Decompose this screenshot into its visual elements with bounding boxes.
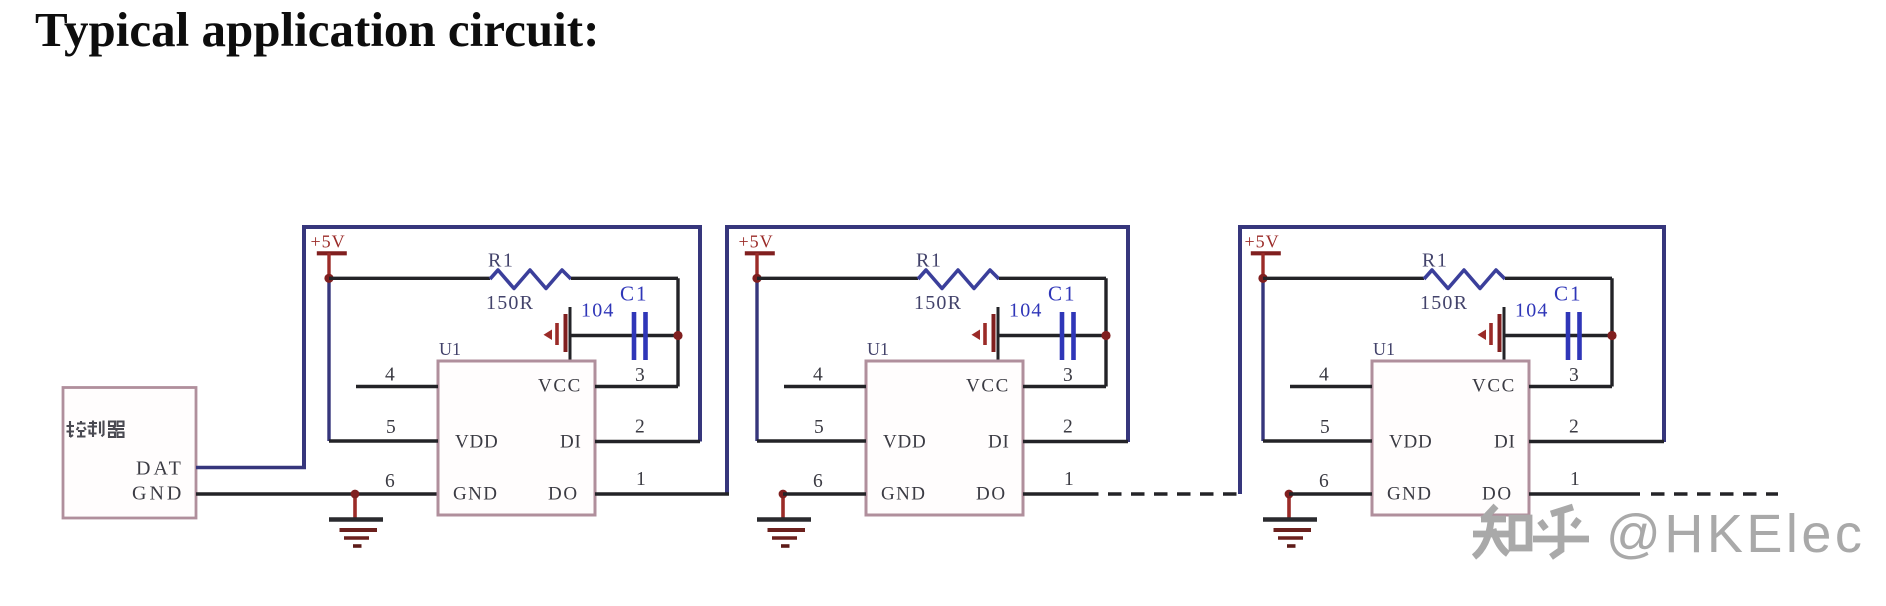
junction dot at capacitor/VCC node (stage 2) (1101, 331, 1110, 340)
svg-text:VCC: VCC (1472, 376, 1516, 397)
svg-text:U1: U1 (867, 339, 889, 359)
capacitor C1 plates (stage 2) (1062, 312, 1074, 360)
svg-text:VDD: VDD (455, 432, 499, 453)
wire: resistor to top-right corner (stage 3) (1505, 277, 1612, 280)
capacitor C1 plates (stage 1) (634, 312, 646, 360)
svg-text:GND: GND (453, 484, 498, 505)
svg-text:R1: R1 (916, 250, 942, 272)
capacitor C1 plates (stage 3) (1568, 312, 1580, 360)
watermark 知乎 (drawn strokes) (1473, 506, 1589, 557)
wire: resistor to top-right corner (stage 1) (571, 277, 678, 280)
dashed wire DO stage 2 to stage 3 loop (1085, 492, 1242, 496)
power symbol +5V (stage 1) (311, 232, 347, 279)
svg-text:6: 6 (1319, 471, 1329, 492)
wire: +5V rail to resistor (stage 2) (757, 277, 918, 280)
svg-text:5: 5 (386, 417, 396, 438)
wire: VDD riser from +5V junction to pin 5 (stage 1) (327, 278, 330, 441)
svg-text:1: 1 (1570, 469, 1580, 490)
wire: bypass node to capacitor (stage 1) (570, 334, 678, 337)
pin 3 wire VCC (stage 2) (1023, 385, 1106, 388)
power flag to VCC bypass (stage 3) (1478, 307, 1505, 361)
svg-text:2: 2 (635, 417, 645, 438)
pin 5 wire VDD (stage 3) (1263, 439, 1372, 442)
pin 5 wire VDD (stage 2) (757, 439, 866, 442)
wire: right vertical down to VCC pin (stage 2) (1104, 278, 1107, 386)
controller label 控制器 (drawn strokes) (67, 421, 125, 438)
wire: input loop net to DI (stage 3) (1240, 227, 1664, 494)
svg-text:150R: 150R (1420, 292, 1468, 314)
wire: controller GND to U1 pin 6 (196, 492, 438, 495)
wire: bypass node to capacitor (stage 3) (1504, 334, 1612, 337)
IC U1 body (stage 2) (866, 361, 1023, 515)
resistor R1 zigzag (stage 2) (918, 270, 999, 289)
svg-text:3: 3 (635, 365, 645, 386)
pin 2 wire DI (stage 2) (1023, 440, 1128, 443)
svg-text:4: 4 (1319, 365, 1329, 386)
ground symbol (stage 3) (1263, 494, 1317, 546)
junction dot at ground tap (stage 1) (351, 490, 360, 499)
svg-text:@HKElec: @HKElec (1606, 504, 1865, 564)
svg-text:6: 6 (385, 471, 395, 492)
svg-text:U1: U1 (439, 339, 461, 359)
svg-text:C1: C1 (620, 282, 649, 306)
wire: +5V rail to resistor (stage 1) (329, 277, 490, 280)
power symbol +5V (stage 3) (1245, 232, 1281, 279)
junction dot at +5V rail (stage 1) (324, 274, 333, 283)
IC U1 body (stage 1) (438, 361, 595, 515)
wire: VDD riser from +5V junction to pin 5 (stage 2) (755, 278, 758, 441)
svg-text:3: 3 (1569, 365, 1579, 386)
power symbol +5V (stage 2) (739, 232, 775, 279)
wire: resistor to top-right corner (stage 2) (999, 277, 1106, 280)
controller box 控制器 (63, 388, 196, 519)
power flag to VCC bypass (stage 2) (972, 307, 999, 361)
pin 1 wire DO stage 2 (solid) (1023, 492, 1085, 495)
junction dot at capacitor/VCC node (stage 3) (1607, 331, 1616, 340)
svg-text:4: 4 (813, 365, 823, 386)
wire: bypass node to capacitor (stage 2) (998, 334, 1106, 337)
svg-text:DO: DO (976, 484, 1007, 505)
wire: VDD riser from +5V junction to pin 5 (stage 3) (1261, 278, 1264, 441)
svg-text:104: 104 (581, 300, 615, 322)
svg-text:GND: GND (132, 483, 184, 505)
pin 4 wire (stage 2) (784, 385, 866, 388)
power flag to VCC bypass (stage 1) (544, 307, 571, 361)
resistor R1 zigzag (stage 3) (1424, 270, 1505, 289)
ground symbol (stage 2) (757, 494, 811, 546)
svg-text:+5V: +5V (739, 232, 774, 252)
pin 4 wire (stage 1) (356, 385, 438, 388)
svg-text:VDD: VDD (883, 432, 927, 453)
svg-text:VCC: VCC (966, 376, 1010, 397)
svg-text:2: 2 (1569, 417, 1579, 438)
svg-text:104: 104 (1009, 300, 1043, 322)
svg-text:DO: DO (548, 484, 579, 505)
svg-text:VDD: VDD (1389, 432, 1433, 453)
pin 5 wire VDD (stage 1) (329, 439, 438, 442)
pin 4 wire (stage 3) (1290, 385, 1372, 388)
wire: right vertical down to VCC pin (stage 1) (676, 278, 679, 386)
wire: DAT output (196, 466, 306, 470)
svg-text:DI: DI (1494, 432, 1516, 453)
svg-text:6: 6 (813, 471, 823, 492)
wire: input loop net to DI (stage 2) (727, 227, 1128, 494)
svg-text:2: 2 (1063, 417, 1073, 438)
svg-text:150R: 150R (914, 292, 962, 314)
ground symbol (stage 1) (329, 494, 383, 546)
svg-text:U1: U1 (1373, 339, 1395, 359)
wire: right vertical down to VCC pin (stage 3) (1610, 278, 1613, 386)
resistor R1 zigzag (stage 1) (490, 270, 571, 289)
pin 3 wire VCC (stage 3) (1529, 385, 1612, 388)
pin 2 wire DI (stage 1) (595, 440, 700, 443)
pin 6 wire GND stage 2 (783, 492, 866, 495)
junction dot at ground tap (stage 3) (1285, 490, 1294, 499)
wire: +5V rail to resistor (stage 3) (1263, 277, 1424, 280)
title: Typical application circuit: (35, 1, 599, 58)
svg-text:1: 1 (1064, 469, 1074, 490)
svg-text:R1: R1 (1422, 250, 1448, 272)
junction dot at ground tap (stage 2) (779, 490, 788, 499)
svg-text:VCC: VCC (538, 376, 582, 397)
svg-text:GND: GND (1387, 484, 1432, 505)
svg-text:GND: GND (881, 484, 926, 505)
svg-text:5: 5 (1320, 417, 1330, 438)
junction dot at +5V rail (stage 2) (752, 274, 761, 283)
junction dot at +5V rail (stage 3) (1258, 274, 1267, 283)
svg-text:R1: R1 (488, 250, 514, 272)
svg-text:3: 3 (1063, 365, 1073, 386)
wire: input loop net to DI (stage 1) (304, 227, 700, 468)
pin 6 wire GND stage 3 (1289, 492, 1372, 495)
svg-text:DI: DI (560, 432, 582, 453)
svg-text:DO: DO (1482, 484, 1513, 505)
svg-text:C1: C1 (1048, 282, 1077, 306)
dashed wire DO stage 3 continuation (1651, 492, 1778, 496)
pin 1 wire DO stage 1 to stage 2 loop (595, 492, 729, 495)
svg-text:C1: C1 (1554, 282, 1583, 306)
svg-text:DAT: DAT (136, 458, 184, 480)
svg-text:5: 5 (814, 417, 824, 438)
pin 3 wire VCC (stage 1) (595, 385, 678, 388)
svg-text:104: 104 (1515, 300, 1549, 322)
pin 1 wire DO stage 3 (solid) (1529, 492, 1640, 495)
svg-text:+5V: +5V (1245, 232, 1280, 252)
IC U1 body (stage 3) (1372, 361, 1529, 515)
svg-text:150R: 150R (486, 292, 534, 314)
svg-text:+5V: +5V (311, 232, 346, 252)
junction dot at capacitor/VCC node (stage 1) (673, 331, 682, 340)
svg-text:DI: DI (988, 432, 1010, 453)
pin 2 wire DI (stage 3) (1529, 440, 1664, 443)
svg-text:4: 4 (385, 365, 395, 386)
svg-text:1: 1 (636, 469, 646, 490)
